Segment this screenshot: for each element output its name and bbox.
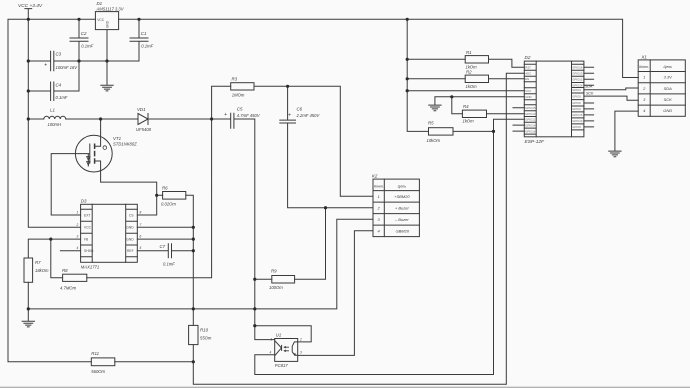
svg-text:R1: R1 [466,50,472,55]
svg-text:R7: R7 [35,260,41,265]
svg-text:GPIO15: GPIO15 [572,113,583,117]
svg-text:R2: R2 [466,70,472,75]
svg-text:GPIO13: GPIO13 [572,71,583,75]
svg-text:10kOm: 10kOm [427,138,441,143]
svg-text:55Om: 55Om [200,336,212,341]
svg-text:C5: C5 [237,107,243,112]
svg-text:SDA: SDA [585,85,593,89]
svg-text:+: + [224,112,227,118]
svg-text:C1: C1 [141,31,147,36]
svg-text:4: 4 [77,246,79,250]
svg-text:6: 6 [140,235,142,239]
svg-text:GPIO16: GPIO16 [572,65,583,69]
svg-text:+: + [44,62,47,68]
svg-text:VCC +3.4V: VCC +3.4V [18,3,43,9]
svg-text:PC817: PC817 [275,363,288,368]
svg-text:VCC: VCC [84,226,92,230]
svg-text:100mH: 100mH [48,122,62,127]
svg-text:VCC: VCC [525,89,531,93]
svg-text:GPIO14: GPIO14 [525,123,536,127]
svg-text:UF5408: UF5408 [136,127,152,132]
svg-text:100Om: 100Om [269,285,283,290]
svg-text:Цепь: Цепь [398,184,407,188]
svg-text:1: 1 [378,194,380,199]
svg-text:2.2mF 450V: 2.2mF 450V [296,113,321,118]
svg-text:2: 2 [299,338,302,342]
svg-text:1kOm: 1kOm [466,84,478,89]
svg-text:18kOm: 18kOm [35,268,49,273]
svg-text:K2: K2 [372,173,378,178]
svg-text:Конт.: Конт. [639,65,649,69]
svg-text:X1: X1 [641,55,648,60]
svg-text:GND: GND [126,226,134,230]
svg-text:GPIO16: GPIO16 [525,129,536,133]
svg-text:MAX1771: MAX1771 [81,264,99,269]
svg-text:GND: GND [106,20,110,28]
svg-text:D2: D2 [525,55,531,60]
svg-text:Конт.: Конт. [374,184,384,188]
svg-text:100mF 16V: 100mF 16V [56,65,79,70]
svg-text:SCK: SCK [664,97,673,102]
svg-text:0.1mF: 0.1mF [81,43,93,48]
svg-text:3.3V: 3.3V [664,75,673,80]
svg-text:+: + [288,113,291,119]
svg-text:VT1: VT1 [113,136,122,141]
svg-text:GND: GND [663,108,672,113]
svg-text:CS: CS [129,213,134,217]
svg-text:SHDN: SHDN [84,249,94,253]
svg-text:560Om: 560Om [91,369,105,374]
svg-text:7: 7 [140,223,142,227]
svg-text:GPIO0: GPIO0 [572,101,581,105]
svg-text:GPIO4: GPIO4 [572,88,581,92]
svg-text:1: 1 [271,338,273,342]
svg-text:R4: R4 [463,104,469,109]
svg-text:2: 2 [76,223,79,227]
svg-text:R6: R6 [162,185,168,190]
svg-text:SCK: SCK [586,92,594,96]
svg-text:GPIO10: GPIO10 [572,119,583,123]
svg-text:3: 3 [300,351,302,355]
svg-text:VD1: VD1 [137,107,146,112]
svg-text:1kOm: 1kOm [463,119,475,124]
svg-text:R10: R10 [200,327,209,332]
svg-text:0.1mF: 0.1mF [56,95,68,100]
svg-text:+ Buzer: + Buzer [395,205,410,210]
svg-text:ESP-12F: ESP-12F [525,139,546,145]
svg-text:0.1mF: 0.1mF [141,43,153,48]
svg-text:GPIO12: GPIO12 [525,118,536,122]
svg-text:4.7MOm: 4.7MOm [60,286,77,291]
svg-text:GPIO12: GPIO12 [572,77,583,81]
svg-text:1: 1 [643,75,645,80]
svg-text:GPIO5: GPIO5 [572,94,581,98]
svg-text:GPIO2: GPIO2 [572,107,581,111]
svg-text:Цепь: Цепь [663,65,672,69]
svg-text:R11: R11 [91,351,99,356]
svg-text:5: 5 [140,246,142,250]
svg-text:STD1NK80Z: STD1NK80Z [113,142,137,147]
svg-text:4: 4 [270,351,272,355]
svg-text:3: 3 [77,235,79,239]
svg-text:1MOm: 1MOm [232,93,245,98]
svg-text:C4: C4 [56,82,62,87]
svg-text:GPIO9: GPIO9 [572,125,581,129]
svg-text:– Buzer: – Buzer [394,217,409,222]
svg-text:+SBM20: +SBM20 [394,194,410,199]
svg-text:EXT: EXT [84,213,90,217]
svg-text:4.7mF 450V: 4.7mF 450V [237,113,261,118]
svg-text:0.02Om: 0.02Om [161,202,176,207]
svg-text:D3: D3 [81,198,87,203]
svg-text:8: 8 [140,211,142,215]
svg-text:1kOm: 1kOm [466,64,478,69]
svg-text:C2: C2 [81,31,87,36]
svg-text:RST: RST [525,65,531,69]
svg-text:R3: R3 [232,76,238,81]
svg-text:GND: GND [126,237,134,241]
svg-text:ADC: ADC [525,71,531,75]
svg-text:AMS1117 3.3V: AMS1117 3.3V [96,6,125,11]
svg-text:C6: C6 [297,107,303,112]
svg-text:0.1mF: 0.1mF [163,261,175,266]
svg-text:-SBM20: -SBM20 [395,228,410,233]
svg-text:L1: L1 [50,108,55,113]
svg-text:VCC: VCC [97,18,104,22]
svg-text:R8: R8 [62,268,68,273]
svg-text:U1: U1 [276,333,281,338]
svg-text:C7: C7 [160,244,166,249]
svg-text:GPIO15: GPIO15 [525,106,536,110]
svg-text:R5: R5 [428,120,434,125]
svg-text:1: 1 [77,211,79,215]
svg-text:SDA: SDA [664,86,673,91]
svg-text:REF: REF [127,249,134,253]
svg-text:GPIO14: GPIO14 [572,83,583,87]
svg-text:R9: R9 [271,268,277,273]
svg-text:GPIO13: GPIO13 [525,112,536,116]
svg-text:EN: EN [525,77,529,81]
svg-text:C3: C3 [56,51,62,56]
svg-text:GND: GND [525,95,531,99]
